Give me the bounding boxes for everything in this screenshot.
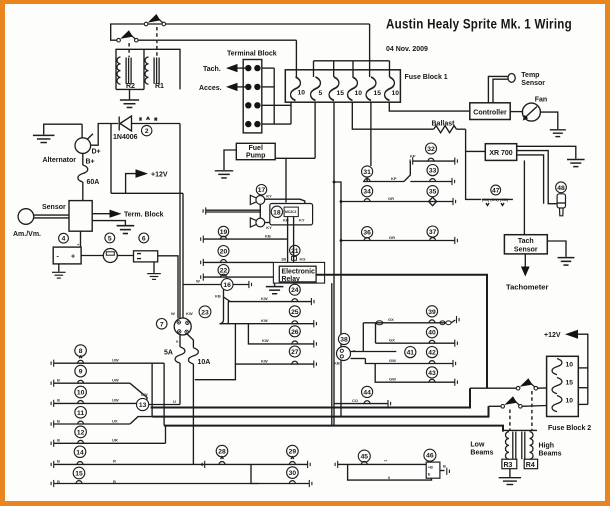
node 6 [139,233,149,243]
fuse 10A [188,348,198,364]
svg-text:GW: GW [389,358,396,363]
svg-text:25: 25 [291,309,299,316]
svg-text:Am./Vm.: Am./Vm. [13,231,41,238]
svg-text:7: 7 [160,321,164,328]
wire F5 bottom to node 31 [370,102,372,166]
svg-text:UR: UR [112,438,118,443]
svg-text:Sensor: Sensor [521,80,545,87]
wire terminal row3 to fuse bus [262,104,291,106]
module box 18 [270,204,313,225]
node 48 [556,182,567,193]
wire row 40 [376,342,455,344]
node 39 [426,306,437,317]
svg-text:KW: KW [261,318,268,323]
fuse F8 15 [552,378,562,394]
arrow Term. Block [92,213,110,215]
battery [53,247,81,264]
node 33 [427,165,438,176]
fuse F3 15 [329,77,339,100]
wire row 19 [201,236,204,243]
svg-text:4: 4 [62,236,66,243]
wire box bottom [111,192,183,194]
svg-text:10: 10 [566,398,574,405]
controller box [470,103,510,120]
wire 16 to row 24 [220,290,224,324]
fuse top bus [314,60,390,62]
box 46 [426,462,440,478]
svg-text:47: 47 [492,188,500,195]
svg-text:18: 18 [273,209,281,216]
svg-text:43: 43 [428,370,436,377]
wire box6 to connector 7 [158,256,178,318]
svg-text:KW: KW [261,358,268,363]
node 18 [271,206,282,217]
wire F3 bottom long vertical [333,102,335,426]
wire row 44 [334,403,388,405]
wire row 28/29 right [251,463,308,465]
wire row 39 [375,323,377,343]
terminal right bus [262,67,274,69]
node 46 [424,449,436,461]
ground under R2 [129,89,131,99]
node 36 [362,227,373,238]
svg-text:KY: KY [266,194,272,199]
svg-text:KG: KG [300,257,306,262]
wire top feed corner [369,24,371,61]
wire row 43 [375,364,455,383]
long line A [151,388,470,407]
wire row 9 [51,380,54,387]
svg-text:40: 40 [428,330,436,337]
svg-text:+12V: +12V [151,172,168,179]
svg-text:5A: 5A [164,349,173,356]
wire row 32 [410,158,413,165]
svg-text:Beams: Beams [539,451,562,458]
horn feed wires [203,207,206,214]
wire right edge down [179,124,181,194]
svg-text:10: 10 [392,90,400,97]
svg-text:6: 6 [388,475,391,480]
wire row 8 [51,360,54,367]
node 24 [289,284,300,295]
svg-text:B: B [113,479,116,484]
svg-text:37: 37 [429,229,437,236]
svg-text:33: 33 [429,168,437,175]
tach sensor box [504,235,547,254]
coil R4 [522,432,533,460]
ammeter Am./Vm. [18,209,34,225]
node 45 [358,450,370,462]
svg-text:Fan: Fan [535,96,547,103]
wire row 30 [289,481,295,484]
svg-text:KW: KW [186,311,193,316]
svg-text:GR: GR [389,235,395,240]
svg-text:5: 5 [108,235,112,242]
connector stubs from C38 [351,351,397,353]
svg-text:GX: GX [388,317,394,322]
svg-text:10: 10 [566,362,574,369]
wire row 26 [248,324,313,344]
svg-text:21: 21 [291,248,299,255]
relay ground [274,283,276,286]
svg-text:MC2C1: MC2C1 [285,210,297,214]
wire XR700 down to tach sensor [523,160,525,234]
svg-text:CO: CO [352,398,358,403]
wire connector to 10A [187,334,194,348]
svg-text:Controller: Controller [473,110,507,117]
+12V arrow [126,174,136,194]
node 42 [426,347,437,358]
svg-text:Austin Healy Sprite Mk. 1 Wiri: Austin Healy Sprite Mk. 1 Wiring [386,16,572,31]
svg-text:41: 41 [407,350,415,357]
diode 1N4006 [118,117,120,131]
ground for fuel pump [224,150,236,170]
inner module [284,207,298,217]
wire F4 bottom to ballast [352,102,433,129]
wire sensor to battery [80,231,82,247]
svg-text:R4: R4 [526,462,535,469]
node 35 [427,186,438,197]
wire 10A down to row28 [192,364,194,464]
wire row 31/33 [366,177,368,181]
alternator [81,124,83,138]
fuel pump [236,143,275,159]
svg-text:W: W [171,311,175,316]
wire 10A link [195,364,236,380]
svg-text:1N4006: 1N4006 [113,134,138,141]
R4 label box [524,459,537,469]
coil R3 [505,432,515,460]
svg-text:Tach: Tach [518,238,534,245]
svg-text:R2: R2 [126,83,135,90]
dashed to R3 [509,410,511,431]
svg-text:13: 13 [139,402,147,409]
fuse F7 10 [552,359,562,375]
svg-text:B+: B+ [86,158,95,165]
svg-text:39: 39 [428,309,436,316]
node 16 [221,279,233,291]
node 4 [59,233,69,243]
wire row 45 [335,461,338,468]
svg-text:17: 17 [258,187,266,194]
fuse F2 5 [311,77,321,100]
node 37 [427,226,438,237]
svg-text:UW: UW [112,358,119,363]
svg-text:24: 24 [291,287,299,294]
svg-text:Fuse Block 2: Fuse Block 2 [548,425,591,432]
svg-text:Beams: Beams [470,450,493,457]
svg-text:UW: UW [112,378,119,383]
wire connector to 5A [179,334,181,347]
svg-text:Tach.: Tach. [203,66,221,73]
electronic relay box [279,266,316,282]
wire relay area down [331,283,333,426]
terminal dots [245,65,261,127]
svg-text:Tachometer: Tachometer [506,283,549,292]
svg-text:22: 22 [220,268,228,275]
wire terminal row4 to fuse1 bottom [262,123,291,125]
svg-text:46: 46 [426,453,434,460]
wire switch2 feed to F1 [295,40,297,77]
wire top feed [111,24,370,40]
svg-text:GX: GX [389,338,395,343]
svg-text:**: ** [384,459,388,464]
wire XR700 to right ground [517,146,576,159]
svg-text:14: 14 [76,449,84,456]
node 14 [74,446,86,458]
svg-text:Alternator: Alternator [43,157,77,164]
branch to inner vertical [334,182,341,417]
svg-text:Sensor: Sensor [514,247,538,254]
node 25 [289,306,300,317]
fan to ground [540,112,557,129]
terminal block body [243,60,262,133]
solenoid 5 [103,249,117,263]
wire row 36/37 [341,240,455,242]
node 27 [289,346,300,357]
wire node13 to 5A vertical [149,404,180,406]
svg-text:UW: UW [141,392,148,397]
svg-text:5: 5 [319,90,323,97]
wire row 15 [51,480,54,487]
svg-text:D+: D+ [92,148,101,155]
svg-text:36: 36 [363,230,371,237]
alternator ground [44,124,82,134]
ground under battery [58,264,60,272]
fuse 5A [175,347,185,363]
svg-text:20: 20 [220,249,228,256]
row8 drop to line C [163,363,165,425]
svg-text:Fuel: Fuel [249,145,263,152]
svg-text:UX: UX [112,418,118,423]
wire switch2 to fuse block [136,39,296,41]
wire row 24 [224,297,231,302]
svg-text:19: 19 [220,229,228,236]
wire row 42 [365,359,453,364]
row 16 wire [184,284,249,286]
svg-text:12: 12 [77,429,85,436]
wire row 14/28/29 [51,461,54,468]
svg-text:W: W [196,279,200,284]
svg-text:Terminal Block: Terminal Block [227,51,277,58]
wire row 22 [201,274,204,281]
horn upper [250,195,264,204]
svg-text:B: B [57,438,60,443]
temp sensor wire [488,76,507,102]
svg-text:KB: KB [265,234,271,239]
svg-text:B: B [57,398,60,403]
svg-text:a: a [176,339,179,344]
wire diode row [91,124,118,146]
main schematic groups appended below [13,14,370,318]
node 34 [362,186,373,197]
svg-text:Low: Low [470,442,485,449]
wire row 25 [227,302,229,324]
svg-text:KB: KB [334,361,340,366]
XR700 box [485,144,516,161]
relay coil box [116,49,180,89]
fuse 60A [82,153,84,165]
tachometer arrow [524,254,526,267]
svg-text:27: 27 [291,349,299,356]
ground under R3 [509,469,511,477]
svg-text:15: 15 [374,90,382,97]
wire solenoid to box6 [117,255,133,257]
connector C7 [174,318,191,335]
svg-text:60A: 60A [87,179,100,186]
node 31 [362,166,373,177]
svg-text:10A: 10A [198,359,211,366]
node 20 [218,246,229,257]
node 22 [218,265,229,276]
node 5 [105,233,115,243]
wire XR700 to plug B [517,155,544,204]
svg-text:B: B [57,479,60,484]
svg-text:29: 29 [289,449,297,456]
svg-text:High: High [539,443,555,450]
svg-text:15: 15 [75,471,83,478]
node 23 [199,306,211,318]
node 10 [75,386,87,398]
svg-text:KW: KW [261,296,268,301]
svg-text:XR 700: XR 700 [489,150,512,157]
svg-text:KP: KP [410,153,416,158]
svg-text:Pump: Pump [246,153,265,160]
wire row 11 [51,420,54,427]
svg-text:10: 10 [298,90,306,97]
svg-text:45: 45 [361,454,369,461]
coil R1 [145,57,159,84]
node 7 [156,319,167,330]
svg-text:+: + [71,254,75,261]
dashed link S1 to R1 [156,27,158,57]
svg-text:26: 26 [291,329,299,336]
fuse F9 10 [552,396,562,412]
box 6 [134,251,158,262]
svg-text:Relay: Relay [282,276,301,283]
svg-text:15: 15 [566,380,574,387]
svg-text:10: 10 [77,390,85,397]
wire row 20 [201,259,204,266]
node 12 [75,426,87,438]
wire battery to solenoid [81,255,103,257]
svg-text:R: R [113,459,116,464]
ground stub right of sensor [92,221,125,226]
node 19 [218,226,228,236]
fuse2 right links [578,367,588,369]
svg-text:44: 44 [363,389,371,396]
svg-text:Acces.: Acces. [199,85,222,92]
svg-text:KP: KP [391,176,397,181]
connector on wire [292,257,297,261]
node 21 [290,245,300,255]
svg-text:8: 8 [79,348,83,355]
coil R2 [117,57,131,84]
svg-text:15: 15 [337,90,345,97]
svg-text:34: 34 [363,189,371,196]
U dip to row30 [251,464,259,483]
wire fuel pump right [275,157,315,159]
svg-text:04 Nov. 2009: 04 Nov. 2009 [386,46,428,53]
node 11 [75,407,87,419]
sensor box [69,201,92,232]
svg-text:B: B [443,464,446,469]
svg-text:Electronic: Electronic [282,268,315,275]
wire row 34/35 [341,201,453,203]
node 8 [75,345,87,357]
svg-text:1B: 1B [281,257,286,262]
temp sensor bulb [508,74,515,83]
dashed to R4 [531,391,533,431]
svg-text:31: 31 [363,169,371,176]
row8 drop to line B [151,363,153,416]
fuse F1 10 [291,77,301,100]
node 38 [338,333,349,344]
svg-text:11: 11 [77,410,84,417]
node 9 [75,365,87,377]
svg-text:38: 38 [340,337,348,344]
node 41 [405,347,416,358]
ground under box 6 [153,262,155,273]
svg-text:32: 32 [427,146,435,153]
svg-text:KB: KB [215,294,221,299]
long line C [164,426,503,432]
electronic relay outer [273,262,324,283]
node 26 [289,326,300,337]
svg-text:30: 30 [289,470,297,477]
svg-text:42: 42 [428,350,436,357]
wire relay to right [316,275,487,388]
dashed link S2 to R2 [128,43,130,57]
wire lower horn stub [264,222,269,224]
spark plug [557,194,565,208]
horn link vertical [259,204,261,218]
node 32 [426,143,437,154]
svg-text:35: 35 [429,189,437,196]
node 40 [426,327,437,338]
svg-text:R1: R1 [155,83,164,90]
wire horn to box18 [264,199,304,203]
node 17 [256,185,266,195]
wire F6 bottom to controller [389,102,470,111]
fuse F6 10 [385,77,395,100]
spark gap marks [140,118,142,121]
svg-text:KY: KY [266,225,272,230]
svg-text:16: 16 [223,282,231,289]
switch high beam [470,387,518,389]
wire 5A to node 13 [179,363,181,404]
svg-text:6: 6 [142,235,146,242]
node 28 [216,445,228,457]
svg-text:+12V: +12V [544,332,561,339]
wire vertical from diode junction [110,124,112,194]
svg-text:Temp: Temp [521,72,539,79]
wire row 10 [51,400,54,407]
node 29 [287,445,299,457]
wire row 12 [51,440,54,447]
svg-text:10: 10 [355,90,363,97]
svg-text:U: U [173,399,176,404]
wire row 27 [235,324,313,364]
wire F2 bottom to node18 box [314,102,316,158]
connector C38 [337,347,351,361]
svg-text:48: 48 [557,185,565,192]
loop 45/46 bottom [348,464,432,480]
svg-text:Sensor: Sensor [42,204,66,211]
node 47 [491,185,501,195]
svg-text:-: - [57,254,60,261]
node 43 [426,367,437,378]
